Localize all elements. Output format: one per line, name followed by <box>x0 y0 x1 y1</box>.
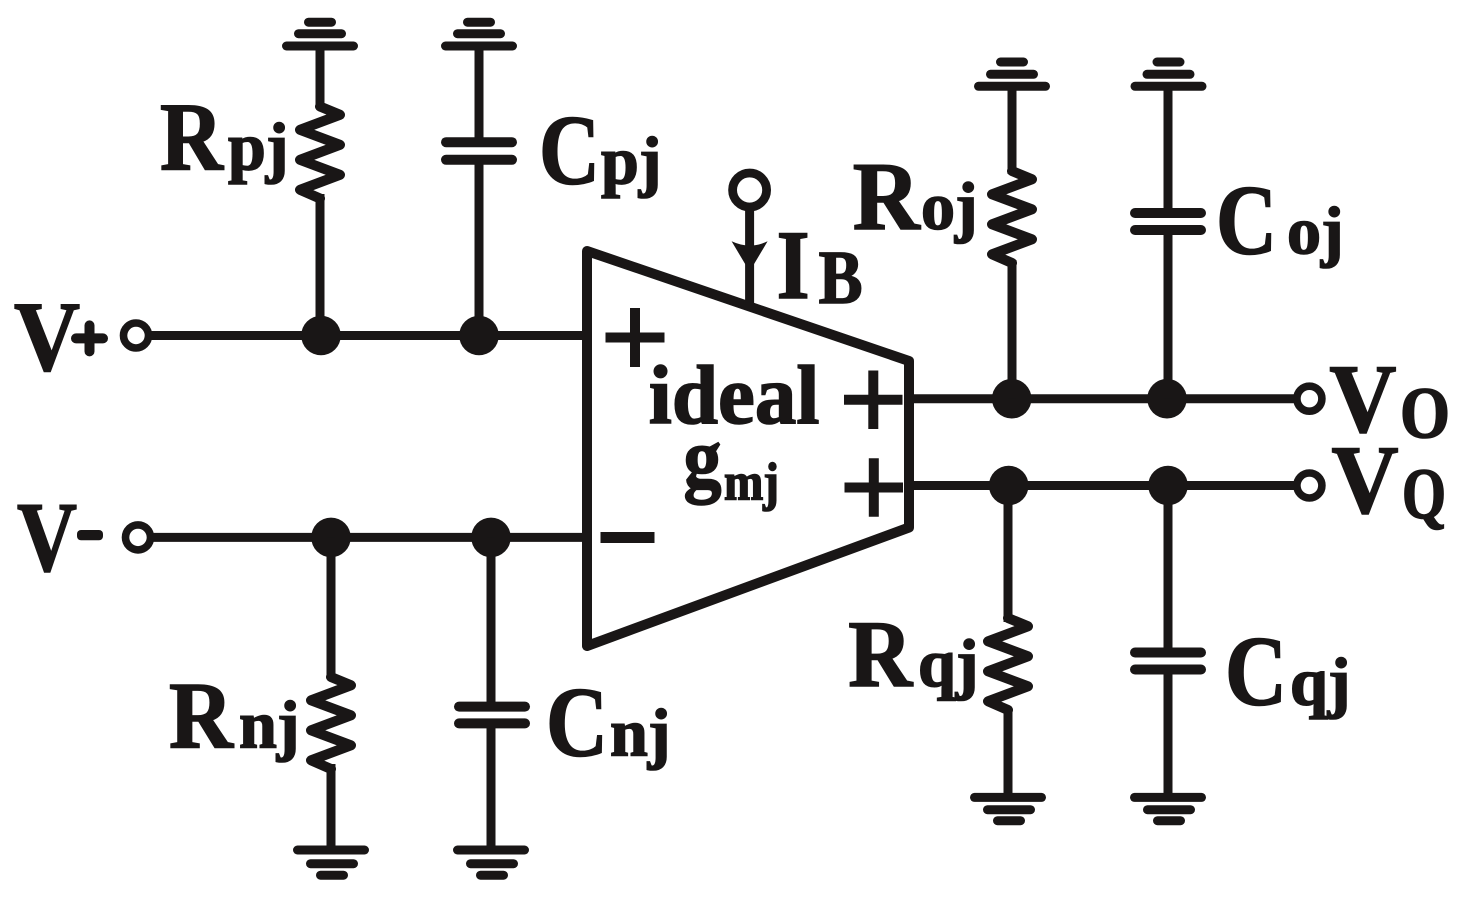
svg-text:Q: Q <box>1402 454 1446 534</box>
wire Cqj to ground <box>1164 669 1173 797</box>
svg-text:g: g <box>684 412 722 506</box>
terminal V+ <box>124 323 149 348</box>
svg-text:pj: pj <box>228 109 288 185</box>
wire Rqj to ground <box>1004 708 1013 797</box>
wire ground to Coj <box>1164 86 1173 213</box>
wire IB arrow shaft <box>745 207 754 306</box>
svg-text:ideal: ideal <box>649 349 820 442</box>
wire V- node to Cnj <box>487 537 496 707</box>
svg-text:R: R <box>853 143 921 251</box>
svg-text:I: I <box>777 211 810 320</box>
svg-text:V: V <box>14 281 80 392</box>
op-amp + input symbol <box>606 308 665 367</box>
svg-text:R: R <box>848 601 913 707</box>
svg-text:R: R <box>169 663 234 769</box>
svg-text:C: C <box>1225 616 1287 727</box>
svg-text:R: R <box>160 84 224 191</box>
label VQ <box>1332 427 1447 535</box>
svg-text:O: O <box>1400 373 1450 454</box>
ground (below resistor Rnj) <box>298 850 365 875</box>
resistor Rqj <box>988 618 1028 710</box>
ground (above resistor Rpj, pointing up) <box>287 22 354 46</box>
capacitor Coj <box>1135 213 1201 230</box>
wire Roj to VO node <box>1008 260 1017 399</box>
svg-text:qj: qj <box>918 625 978 701</box>
svg-text:C: C <box>539 95 600 206</box>
capacitor Cnj <box>459 707 525 724</box>
op-amp U1 (ideal gm trapezoid) <box>587 251 909 646</box>
svg-text:C: C <box>546 667 608 778</box>
svg-text:V: V <box>17 482 77 593</box>
terminal V- <box>126 525 151 550</box>
svg-text:oj: oj <box>921 168 978 244</box>
label V- <box>17 482 103 593</box>
wire output VQ <box>909 481 1294 490</box>
wire Coj to VO node <box>1164 230 1173 399</box>
ground (above capacitor Cpj, pointing up) <box>446 22 513 46</box>
node junction V-/Cnj <box>471 518 511 558</box>
svg-text:oj: oj <box>1287 193 1344 269</box>
svg-text:qj: qj <box>1290 644 1350 720</box>
label Rpj <box>160 84 288 191</box>
node junction V+/Rpj <box>301 316 341 356</box>
label Cpj <box>539 95 661 206</box>
ground (below capacitor Cnj) <box>458 850 525 875</box>
label Rnj <box>169 663 299 769</box>
resistor Rpj <box>300 107 340 199</box>
wire V+ input <box>149 331 592 340</box>
label Cnj <box>546 667 670 778</box>
wire Rnj to ground <box>327 764 336 850</box>
label VO <box>1329 346 1450 454</box>
label Rqj <box>848 601 978 707</box>
wire output VO <box>909 394 1294 403</box>
svg-text:mj: mj <box>724 453 779 511</box>
node junction VQ/Rqj <box>989 466 1029 506</box>
terminal VQ <box>1297 473 1322 498</box>
svg-text:C: C <box>1216 165 1277 276</box>
label Coj <box>1216 165 1344 276</box>
capacitor Cqj <box>1135 653 1201 670</box>
svg-text:nj: nj <box>610 695 670 771</box>
op-amp - input symbol <box>601 532 655 543</box>
wire V- input <box>151 533 592 542</box>
label IB <box>777 211 863 320</box>
ground (above resistor Roj, pointing up) <box>979 62 1046 86</box>
ground (above capacitor Coj, pointing up) <box>1135 62 1202 86</box>
label gmj <box>684 412 780 512</box>
node junction VO/Roj <box>992 379 1032 419</box>
terminal IB (bias current) <box>733 173 767 207</box>
wire Cpj to V+ node <box>475 160 484 336</box>
node junction VO/Coj <box>1147 379 1187 419</box>
op-amp + output (bottom) symbol <box>845 458 904 517</box>
svg-text:pj: pj <box>601 123 661 199</box>
label Roj <box>853 143 978 251</box>
resistor Roj <box>992 171 1032 263</box>
wire Rpj to V+ node <box>316 194 325 336</box>
op-amp + output (top) symbol <box>844 371 903 430</box>
node junction V-/Rnj <box>311 518 351 558</box>
wire VQ node to Cqj <box>1164 486 1173 654</box>
arrowhead IB <box>732 241 768 271</box>
node junction VQ/Cqj <box>1148 466 1188 506</box>
ground (below resistor Rqj) <box>975 797 1042 820</box>
terminal VO <box>1297 386 1322 411</box>
wire Cnj to ground <box>487 723 496 850</box>
wire VQ node to Rqj <box>1004 486 1013 623</box>
wire V- node to Rnj <box>327 537 336 678</box>
node junction V+/Cpj <box>459 316 499 356</box>
svg-text:nj: nj <box>239 687 299 763</box>
wire ground to Cpj <box>475 46 484 142</box>
label Cqj <box>1225 616 1350 727</box>
resistor Rnj <box>311 677 351 769</box>
wire ground to Rpj <box>316 46 325 108</box>
svg-text:V: V <box>1332 427 1399 535</box>
wire ground to Roj <box>1008 86 1017 174</box>
capacitor Cpj <box>446 142 512 160</box>
label V+ <box>14 281 103 392</box>
ground (below capacitor Cqj) <box>1135 797 1202 820</box>
